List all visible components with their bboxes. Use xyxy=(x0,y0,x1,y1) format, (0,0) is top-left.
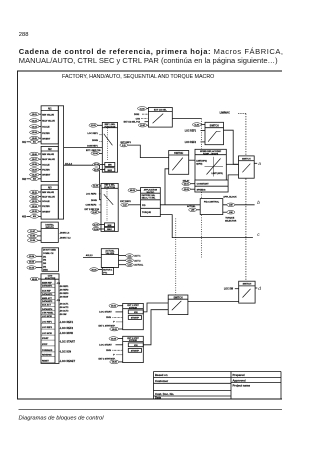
block speed ref limiter/ramp xyxy=(195,149,226,180)
wire start sel to switch d xyxy=(188,301,239,303)
svg-text:403: 403 xyxy=(22,215,27,218)
block DIGITAL INPUTS xyxy=(27,222,71,242)
svg-text:MAX VALUE: MAX VALUE xyxy=(42,196,55,199)
svg-text:AUX REF: AUX REF xyxy=(42,290,52,293)
footer caption xyxy=(19,416,105,422)
node a xyxy=(258,162,261,167)
label DI3 input xyxy=(134,114,148,116)
wire limiter output to switch a xyxy=(226,163,238,165)
svg-text:PID-CONTROL: PID-CONTROL xyxy=(204,201,220,203)
svg-text:-CH: -CH xyxy=(56,300,60,302)
svg-text:Based on: Based on xyxy=(155,373,168,377)
label AI1 P/B 2 + oval xyxy=(85,209,102,214)
svg-text:LIMIT(SPD): LIMIT(SPD) xyxy=(196,161,207,163)
svg-text:REVERSE: REVERSE xyxy=(42,355,52,357)
svg-text:-LOC RESET: -LOC RESET xyxy=(59,359,75,363)
labels fieldbus outputs xyxy=(56,283,69,316)
svg-text:MAIN REF: MAIN REF xyxy=(42,281,52,284)
label REF2 kp xyxy=(86,205,102,207)
node b xyxy=(257,200,260,206)
svg-text:STR/STP: STR/STP xyxy=(131,350,140,352)
svg-text:DI3: DI3 xyxy=(43,263,47,265)
svg-text:12.02: 12.02 xyxy=(184,189,190,191)
label REF1 input xyxy=(88,133,103,135)
wire PID ref line b xyxy=(160,204,254,206)
svg-text:DI2: DI2 xyxy=(43,260,47,262)
svg-text:INVERT: INVERT xyxy=(42,138,51,140)
svg-text:SWITCH: SWITCH xyxy=(242,158,251,160)
svg-text:-CH: -CH xyxy=(56,283,60,285)
wire AI bus to REF1 input xyxy=(64,147,103,149)
node torque sel oval xyxy=(223,210,237,222)
svg-text:FILTER: FILTER xyxy=(42,133,50,135)
svg-text:-DS REF2: -DS REF2 xyxy=(59,290,69,292)
svg-text:DI NOT USED: DI NOT USED xyxy=(43,250,56,252)
wire EXT sel output xyxy=(172,118,201,120)
dashed net EXT1/2 select to next page xyxy=(238,113,246,115)
svg-text:RESET: RESET xyxy=(42,360,49,362)
param oval 35.01 xyxy=(90,268,103,272)
svg-text:-DS ACT2: -DS ACT2 xyxy=(59,306,69,309)
param ovals REF2 min/max xyxy=(92,223,104,231)
wire EXT1 start out xyxy=(143,303,168,312)
svg-text:MAX VALUE: MAX VALUE xyxy=(42,120,55,123)
svg-text:t(SPD): t(SPD) xyxy=(196,162,202,165)
svg-text:SELECTOR: SELECTOR xyxy=(225,220,237,222)
svg-text:MAX: MAX xyxy=(108,169,113,172)
svg-text:10.03: 10.03 xyxy=(30,236,36,238)
diagram frame (top+left+bottom border) xyxy=(18,71,283,399)
svg-text:CTR PANEL: CTR PANEL xyxy=(42,312,54,315)
wire to node a xyxy=(254,162,257,164)
svg-text:402: 402 xyxy=(22,178,27,181)
svg-text:13.03: 13.03 xyxy=(32,126,38,128)
heading line 1 xyxy=(19,47,284,56)
svg-text:AI1: AI1 xyxy=(48,108,52,111)
block AI3 signal conditioning xyxy=(22,185,58,219)
svg-text:COM REF1: COM REF1 xyxy=(87,145,99,147)
svg-text:AI3: AI3 xyxy=(48,187,52,190)
svg-text:13.01: 13.01 xyxy=(32,114,38,116)
svg-text:Date: Date xyxy=(155,396,162,400)
wire const speed to switch a xyxy=(228,175,238,180)
dashed vertical continuation line xyxy=(245,114,247,282)
switch start command select xyxy=(168,295,188,315)
param ovals REF1 min/max xyxy=(93,163,105,172)
label ACTUAL + oval xyxy=(187,205,200,211)
svg-text:LOC REF2: LOC REF2 xyxy=(42,327,53,329)
svg-text:DI3/2: DI3/2 xyxy=(134,114,140,116)
block EXT1/EXT2 select switch xyxy=(148,108,172,128)
svg-text:10.07: 10.07 xyxy=(30,231,36,233)
svg-text:c: c xyxy=(257,233,260,238)
svg-text:DATASET1: DATASET1 xyxy=(42,285,53,288)
switch speed reference xyxy=(169,151,189,175)
svg-text:LIM/MAC: LIM/MAC xyxy=(220,112,230,115)
svg-text:LIM: LIM xyxy=(191,210,195,212)
svg-text:MIN VALUE: MIN VALUE xyxy=(42,113,54,116)
block application macro select xyxy=(141,188,161,217)
param ovals 12.01 12.02 xyxy=(182,182,195,191)
block AI2 signal conditioning xyxy=(22,146,58,181)
svg-text:401: 401 xyxy=(22,141,27,144)
svg-text:13.13: 13.13 xyxy=(32,201,38,203)
svg-text:12.01: 12.01 xyxy=(184,184,190,186)
label AI1 P/B + oval xyxy=(86,150,102,155)
svg-text:LOC START: LOC START xyxy=(99,311,112,314)
svg-text:AI2: AI2 xyxy=(48,148,52,151)
svg-text:STR/STP: STR/STP xyxy=(131,318,140,320)
svg-text:SEQ C, T CTRL: SEQ C, T CTRL xyxy=(142,197,156,199)
svg-text:AUX ACT: AUX ACT xyxy=(42,304,52,307)
svg-text:13.06: 13.06 xyxy=(32,154,38,156)
svg-text:10.05: 10.05 xyxy=(111,338,117,340)
svg-text:MANUAL/AUTO, CTRL SEC y CTRL P: MANUAL/AUTO, CTRL SEC y CTRL PAR (contin… xyxy=(19,56,278,65)
svg-text:PTC: PTC xyxy=(103,272,108,274)
svg-text:MIN: MIN xyxy=(108,225,112,227)
svg-text:13.09: 13.09 xyxy=(32,169,38,171)
inputs EXT1 start xyxy=(99,304,123,331)
svg-text:-DS REF3: -DS REF3 xyxy=(59,293,69,295)
label EXT sel param xyxy=(124,121,149,124)
label AI bus in xyxy=(86,254,94,257)
svg-text:DIGIN: DIGIN xyxy=(91,200,97,202)
svg-text:13.08: 13.08 xyxy=(32,164,38,166)
inputs EXT2 start xyxy=(99,337,123,364)
svg-text:COMM. CH: COMM. CH xyxy=(43,253,54,255)
svg-text:MAX: MAX xyxy=(107,228,112,231)
svg-text:LOC SW: LOC SW xyxy=(224,289,234,291)
svg-text:-LOC REF1: -LOC REF1 xyxy=(59,320,73,324)
svg-text:DI4: DI4 xyxy=(43,265,47,268)
label LIM/MAC xyxy=(220,112,230,115)
svg-text:MOTOR 1: MOTOR 1 xyxy=(103,269,113,271)
dashed control line from EXT select xyxy=(201,119,203,258)
svg-text:STOP: STOP xyxy=(42,344,48,346)
param oval 98.02 xyxy=(30,277,41,281)
svg-text:MIN VALUE: MIN VALUE xyxy=(42,191,54,194)
block EXT1 start/stop/dir xyxy=(123,303,144,329)
svg-text:Customer: Customer xyxy=(155,379,169,383)
svg-text:DATASET3: DATASET3 xyxy=(42,293,53,296)
svg-text:-LOC START: -LOC START xyxy=(59,340,75,344)
block constant speeds xyxy=(195,180,228,192)
svg-text:b: b xyxy=(257,200,260,206)
svg-text:LOC REF1: LOC REF1 xyxy=(88,133,99,135)
svg-text:13.12: 13.12 xyxy=(32,196,38,198)
svg-text:AI1,2,3: AI1,2,3 xyxy=(86,254,94,257)
label acc/dec xyxy=(183,180,190,183)
svg-text:START: START xyxy=(42,337,49,340)
svg-text:FACTORY, HAND/AUTO, SEQUENTIAL: FACTORY, HAND/AUTO, SEQUENTIAL AND TORQU… xyxy=(62,74,214,80)
svg-text:FILTER: FILTER xyxy=(42,206,50,208)
svg-text:13.04: 13.04 xyxy=(32,131,38,134)
svg-text:ION: ION xyxy=(134,345,138,347)
svg-text:288: 288 xyxy=(19,32,29,38)
node EXT REF2 xyxy=(120,201,140,206)
svg-text:RUN: RUN xyxy=(106,317,111,319)
svg-text:LOC REF2: LOC REF2 xyxy=(86,194,97,196)
label REF1 kp input xyxy=(87,145,99,147)
svg-text:ACTUAL: ACTUAL xyxy=(134,264,144,267)
svg-text:Diagramas de bloques de contro: Diagramas de bloques de control xyxy=(19,416,105,422)
svg-text:SCALE: SCALE xyxy=(42,163,50,166)
label LOC SW xyxy=(224,289,239,291)
svg-text:10.04: 10.04 xyxy=(29,266,35,269)
svg-text:10.07: 10.07 xyxy=(140,125,146,127)
svg-text:ACTUAL: ACTUAL xyxy=(187,205,196,208)
svg-text:13.07: 13.07 xyxy=(32,159,38,161)
svg-text:RUN: RUN xyxy=(106,350,111,352)
svg-text:13.05: 13.05 xyxy=(32,138,38,140)
block DI function select xyxy=(27,248,59,272)
label LOC REF1 xyxy=(185,130,205,132)
svg-text:MIN: MIN xyxy=(108,165,112,167)
svg-text:LIM: LIM xyxy=(229,212,233,214)
svg-text:P: P xyxy=(113,355,115,357)
block fieldbus CH0 adapter / panel xyxy=(41,274,59,364)
switch speed ref out xyxy=(239,156,255,178)
label LOC REF2 xyxy=(185,142,205,144)
svg-text:SCALE: SCALE xyxy=(42,200,50,203)
dotted control line to start switch xyxy=(175,219,177,296)
node EXT REF1 xyxy=(120,142,132,147)
svg-text:LIM: LIM xyxy=(229,205,233,207)
svg-text:35.01: 35.01 xyxy=(91,269,97,271)
svg-text:LOC REF2: LOC REF2 xyxy=(185,142,197,144)
svg-text:INVERT: INVERT xyxy=(42,211,51,213)
heading line 2 xyxy=(19,56,278,65)
svg-text:SWITCH: SWITCH xyxy=(174,153,183,155)
svg-text:MIN VALUE: MIN VALUE xyxy=(42,153,54,156)
svg-text:AI1,2,3: AI1,2,3 xyxy=(65,162,73,165)
svg-text:DI1: DI1 xyxy=(43,256,47,258)
svg-text:P: P xyxy=(113,322,115,324)
svg-text:-LOC MCW: -LOC MCW xyxy=(59,331,73,335)
wire torque line c xyxy=(160,215,253,238)
node oval on line b xyxy=(227,203,235,207)
svg-text:10.06: 10.06 xyxy=(112,362,118,364)
block AI1 signal conditioning xyxy=(22,106,58,144)
svg-text:-DS REF1: -DS REF1 xyxy=(59,286,69,288)
svg-text:11.01: 11.01 xyxy=(194,124,200,126)
svg-text:-LOC ION: -LOC ION xyxy=(59,350,71,354)
title block table xyxy=(154,372,282,400)
svg-text:13.15: 13.15 xyxy=(32,211,38,213)
footer rule xyxy=(19,409,283,411)
svg-text:-LOC REF2: -LOC REF2 xyxy=(59,326,73,330)
block EXT2 start/stop/dir xyxy=(123,336,144,362)
svg-text:LOC START: LOC START xyxy=(99,344,112,347)
svg-text:CH0: CH0 xyxy=(136,118,141,120)
svg-text:10.02: 10.02 xyxy=(112,329,118,331)
svg-text:TORQUE: TORQUE xyxy=(142,212,151,214)
svg-text:DATASET4: DATASET4 xyxy=(42,308,53,311)
svg-text:Approved: Approved xyxy=(233,378,246,382)
svg-text:LOC REF1: LOC REF1 xyxy=(185,131,197,133)
switch local REF1/REF2 xyxy=(205,122,224,144)
svg-text:11.07: 11.07 xyxy=(92,212,98,214)
page number 288 xyxy=(19,32,29,38)
svg-text:13.02: 13.02 xyxy=(32,120,38,122)
svg-text:TORQUE: TORQUE xyxy=(225,217,234,219)
param oval 11.02 xyxy=(138,107,149,111)
svg-text:10.04: 10.04 xyxy=(29,255,35,258)
svg-text:99.02: 99.02 xyxy=(130,190,136,192)
svg-text:-DS ACT3: -DS ACT3 xyxy=(59,309,69,312)
wire AI bus to REF blocks xyxy=(64,165,101,200)
svg-text:COM REF2: COM REF2 xyxy=(86,205,98,207)
wire to node d xyxy=(255,287,257,289)
block REF1 SEL/FUNCTION xyxy=(102,122,117,172)
svg-text:13.14: 13.14 xyxy=(32,205,38,208)
node c xyxy=(257,233,260,238)
svg-text:FILTER: FILTER xyxy=(42,170,50,172)
svg-text:LOC MCW: LOC MCW xyxy=(42,333,52,335)
svg-text:SCALE: SCALE xyxy=(42,126,50,129)
svg-text:11.06: 11.06 xyxy=(93,186,99,188)
svg-text:PID: PID xyxy=(142,205,146,207)
svg-text:DIGIN: DIGIN xyxy=(92,140,98,142)
svg-text:ION: ION xyxy=(134,312,138,314)
svg-text:APPL BLOCK: APPL BLOCK xyxy=(223,196,237,199)
wire switch B to limiter xyxy=(189,159,195,161)
node ACT2 xyxy=(119,259,142,263)
svg-text:-DS MCW: -DS MCW xyxy=(59,297,68,299)
svg-text:-DIGIN 1-6: -DIGIN 1-6 xyxy=(59,232,70,234)
wire PID feedback to switch B xyxy=(165,169,169,205)
block actual values xyxy=(101,249,118,268)
svg-text:SWITCH: SWITCH xyxy=(210,126,219,128)
svg-text:-DS ACT1: -DS ACT1 xyxy=(59,302,69,305)
svg-text:10.00: 10.00 xyxy=(30,240,36,242)
wire EXT REF1 to local switch xyxy=(128,145,169,158)
block PID control xyxy=(200,199,223,215)
diagram title xyxy=(62,74,214,80)
svg-text:-DIGIN 7-12: -DIGIN 7-12 xyxy=(59,238,71,240)
switch run command out xyxy=(239,281,255,303)
svg-text:DATASET2: DATASET2 xyxy=(42,300,53,303)
svg-text:Project name: Project name xyxy=(233,384,251,388)
svg-text:LIMIT (SPD): LIMIT (SPD) xyxy=(212,173,224,175)
svg-text:AI2: AI2 xyxy=(33,178,36,181)
svg-text:Prepared: Prepared xyxy=(233,373,245,377)
svg-text:13.11: 13.11 xyxy=(32,192,38,194)
svg-text:MAX VALUE: MAX VALUE xyxy=(42,158,55,161)
svg-text:MAIN ACT: MAIN ACT xyxy=(42,297,52,300)
label CH0 input xyxy=(92,140,102,142)
svg-text:SWITCH: SWITCH xyxy=(243,284,252,286)
svg-text:SPEEDS: SPEEDS xyxy=(197,189,206,191)
block REF2 SEL/FUNCTION xyxy=(101,183,118,231)
node ACT1 xyxy=(119,254,142,258)
labels local control outputs xyxy=(59,320,75,363)
label CH0 sel input xyxy=(136,118,149,120)
svg-text:EXT 1/2 SEL P14: EXT 1/2 SEL P14 xyxy=(124,121,141,124)
AI output bus column xyxy=(58,106,63,219)
svg-text:AI3: AI3 xyxy=(33,215,36,218)
svg-text:Cadena de control de referenci: Cadena de control de referencia, primera… xyxy=(19,47,284,56)
svg-text:10.01: 10.01 xyxy=(111,306,117,308)
svg-text:13.10: 13.10 xyxy=(32,174,38,176)
svg-text:LOC REF1: LOC REF1 xyxy=(42,322,53,324)
svg-text:a: a xyxy=(258,162,261,167)
node d xyxy=(258,286,261,292)
param oval 11.06 xyxy=(92,184,101,188)
label APPL BLOCK xyxy=(223,196,237,199)
param oval 99.02 xyxy=(128,188,141,192)
param oval 11.01 xyxy=(192,123,205,127)
wire EXT2 start out xyxy=(143,310,168,345)
wire actual values in xyxy=(83,257,101,259)
svg-text:d: d xyxy=(258,286,261,292)
svg-text:CONSTANT: CONSTANT xyxy=(197,183,210,186)
svg-text:11.04: 11.04 xyxy=(94,163,100,166)
label REF2 input xyxy=(86,194,101,196)
param oval 11.03 xyxy=(89,123,102,127)
svg-text:INVERT: INVERT xyxy=(42,175,51,177)
svg-text:98.02: 98.02 xyxy=(32,279,38,281)
svg-text:11.02: 11.02 xyxy=(140,108,146,110)
svg-text:-DS SW: -DS SW xyxy=(59,314,66,316)
svg-text:10.04: 10.04 xyxy=(29,261,35,264)
wire switch A output to switch a xyxy=(224,130,239,164)
label CH0 ref2 xyxy=(91,200,97,202)
param oval 10.07 xyxy=(138,123,148,127)
svg-text:AI1: AI1 xyxy=(33,141,36,144)
svg-text:ACT 2: ACT 2 xyxy=(134,259,141,262)
svg-text:FORWARD: FORWARD xyxy=(42,349,53,352)
svg-text:11.05: 11.05 xyxy=(94,169,100,171)
bus label AI1,2,3 xyxy=(65,162,73,165)
block motor temp xyxy=(102,268,113,275)
node ACTUAL xyxy=(119,263,144,267)
svg-text:ACT 1: ACT 1 xyxy=(134,255,141,258)
